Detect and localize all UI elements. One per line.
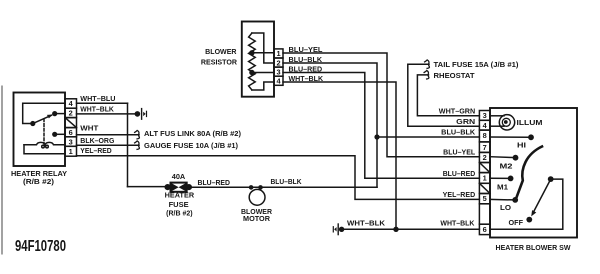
heater relay K1 box [14, 93, 66, 167]
svg-text:4: 4 [483, 121, 488, 130]
relay pin 6 terminal dot [52, 132, 57, 137]
switch pin column [479, 111, 490, 235]
blower motor M1 [249, 185, 265, 205]
relay internal wire pin4 to contact A [23, 103, 65, 123]
wire RHEOSTAT to switch pin 3 WHT-GRN [417, 75, 479, 116]
svg-text:WHT: WHT [80, 126, 99, 133]
switch LO contact [490, 198, 513, 201]
scan left border [1, 86, 3, 254]
fuse squiggle GAUGE [135, 141, 140, 150]
svg-text:HEATER BLOWER SW: HEATER BLOWER SW [496, 245, 571, 252]
resistor bottom elbow to pin 4 [252, 82, 274, 90]
svg-text:1: 1 [276, 49, 280, 58]
svg-text:BLU–BLK: BLU–BLK [441, 130, 475, 137]
svg-text:WHT–BLK: WHT–BLK [289, 76, 324, 83]
relay coil [24, 142, 65, 144]
illumination bulb wire pin 4 [490, 125, 504, 127]
switch M2 contact [490, 156, 513, 159]
svg-text:OFF: OFF [509, 220, 524, 227]
svg-text:HI: HI [517, 143, 526, 150]
svg-text:GAUGE FUSE 10A (J/B #1): GAUGE FUSE 10A (J/B #1) [144, 143, 238, 150]
svg-text:WHT–BLU: WHT–BLU [80, 96, 115, 103]
svg-text:YEL–RED: YEL–RED [80, 148, 111, 155]
switch M1 contact [490, 177, 508, 179]
svg-text:2: 2 [69, 109, 73, 118]
svg-text:ALT FUS LINK 80A (R/B #2): ALT FUS LINK 80A (R/B #2) [144, 131, 241, 138]
svg-text:WHT–BLK: WHT–BLK [80, 106, 114, 113]
wire to 40A heater fuse [128, 186, 166, 188]
switch wiper arc [516, 147, 542, 199]
svg-text:BLU–YEL: BLU–YEL [289, 47, 324, 54]
svg-text:LO: LO [500, 205, 512, 212]
illumination bulb L1 [499, 115, 514, 130]
switch OFF arm with arrow [533, 179, 551, 213]
svg-text:WHT–BLK: WHT–BLK [347, 221, 385, 228]
svg-text:5: 5 [483, 194, 487, 203]
svg-text:8: 8 [483, 131, 487, 140]
svg-text:6: 6 [483, 225, 487, 234]
resistor tap 1 [249, 50, 254, 55]
svg-text:BLK–ORG: BLK–ORG [80, 138, 115, 145]
junction WHT-BLK [393, 227, 398, 232]
wire WHT-BLK ground run to switch pin 6 [342, 228, 480, 230]
wire WHT-BLK relay pin 2 to ground [77, 113, 136, 115]
svg-text:MOTOR: MOTOR [243, 216, 270, 223]
wire main vertical from WHT-BLU down to fuse [127, 103, 129, 186]
wire WHT-BLU relay pin 4 [77, 102, 128, 104]
wire WHT relay pin 6 to ALT fusible link [77, 134, 140, 136]
svg-text:7: 7 [483, 143, 487, 152]
svg-text:3: 3 [483, 111, 487, 120]
ground G2 [333, 224, 344, 235]
svg-text:BLU–RED: BLU–RED [289, 67, 323, 74]
resistor pin column [274, 49, 283, 85]
heater blower switch S1 box [490, 108, 577, 238]
svg-text:BLU–YEL: BLU–YEL [443, 150, 476, 157]
svg-text:ILLUM: ILLUM [517, 120, 543, 127]
svg-text:BLU–RED: BLU–RED [198, 180, 231, 187]
resistor tap 2 [249, 70, 254, 75]
svg-text:94F10780: 94F10780 [15, 238, 66, 255]
switch internal wire pivot to pin 6 [490, 179, 563, 229]
svg-text:4: 4 [276, 77, 281, 86]
svg-text:BLU–BLK: BLU–BLK [271, 179, 302, 186]
squiggle RHEOSTAT [424, 71, 429, 80]
wire BLU-YEL resistor pin 1 to switch pin 2 [283, 53, 479, 157]
svg-text:WHT–GRN: WHT–GRN [439, 109, 475, 116]
switch pivot [548, 176, 554, 182]
svg-text:GRN: GRN [456, 119, 475, 126]
svg-text:2: 2 [483, 153, 487, 162]
svg-text:1: 1 [69, 147, 73, 156]
relay internal wire pin 1 to coil [24, 145, 65, 154]
fuse squiggle TAIL [425, 60, 430, 69]
wire BLU-BLK resistor pin 2 down to motor [283, 63, 377, 187]
relay internal wire pin 6 stub [55, 133, 65, 135]
svg-text:FUSE: FUSE [169, 202, 189, 209]
svg-text:6: 6 [69, 128, 73, 137]
svg-text:3: 3 [276, 67, 280, 76]
junction BLU-BLK to switch pin 8 [374, 134, 379, 139]
relay dashed actuator link [43, 119, 45, 144]
svg-text:M1: M1 [497, 185, 508, 192]
svg-text:HEATER RELAY: HEATER RELAY [11, 171, 67, 178]
illumination bulb wire pin 3 [490, 115, 504, 117]
heater relay pin column [65, 99, 77, 156]
blower resistor R1 box [242, 22, 274, 97]
svg-text:40A: 40A [172, 174, 186, 181]
svg-text:BLU–BLK: BLU–BLK [289, 57, 323, 64]
svg-text:4: 4 [69, 99, 74, 108]
wire TAIL FUSE to switch pin 4 GRN [408, 64, 480, 126]
wire BLU-RED fuse to blower motor [191, 186, 377, 188]
svg-text:(R/B #2): (R/B #2) [166, 210, 193, 217]
blower resistor element [249, 33, 256, 90]
svg-text:BLOWER: BLOWER [241, 209, 272, 216]
wire YEL-RED relay pin 1 long run to switch pin 5 [77, 156, 480, 200]
wire WHT-BLK resistor pin 4 down to ground run [283, 82, 396, 229]
wire BLK-ORG relay pin 3 to gauge fuse [77, 144, 140, 146]
svg-text:(R/B #2): (R/B #2) [23, 179, 54, 186]
wire BLU-RED resistor pin 3 to switch pin 1 [283, 73, 479, 179]
relay switch arm A to B [33, 115, 52, 123]
svg-text:2: 2 [276, 58, 280, 67]
svg-text:BLU–RED: BLU–RED [443, 171, 476, 178]
relay contact B [52, 111, 57, 116]
svg-text:HEATER: HEATER [165, 193, 195, 200]
svg-text:WHT–BLK: WHT–BLK [440, 221, 474, 228]
svg-text:RESISTOR: RESISTOR [201, 59, 237, 66]
fuse F1 40A HEATER FUSE [165, 183, 192, 192]
svg-text:M2: M2 [500, 164, 513, 171]
svg-text:BLOWER: BLOWER [205, 49, 236, 56]
switch HI contact [490, 136, 529, 138]
svg-text:YEL–RED: YEL–RED [443, 192, 476, 199]
relay internal wire B to pin 2 [55, 113, 65, 115]
switch OFF contact [526, 217, 532, 223]
ground G1 [135, 109, 147, 120]
fusible link squiggle ALT [135, 130, 140, 139]
relay contact A [30, 121, 35, 126]
svg-text:3: 3 [69, 137, 73, 146]
svg-text:RHEOSTAT: RHEOSTAT [434, 73, 476, 80]
resistor top elbow to pin 2 [252, 33, 274, 63]
svg-text:1: 1 [483, 174, 487, 183]
svg-text:TAIL FUSE 15A (J/B #1): TAIL FUSE 15A (J/B #1) [434, 62, 519, 69]
